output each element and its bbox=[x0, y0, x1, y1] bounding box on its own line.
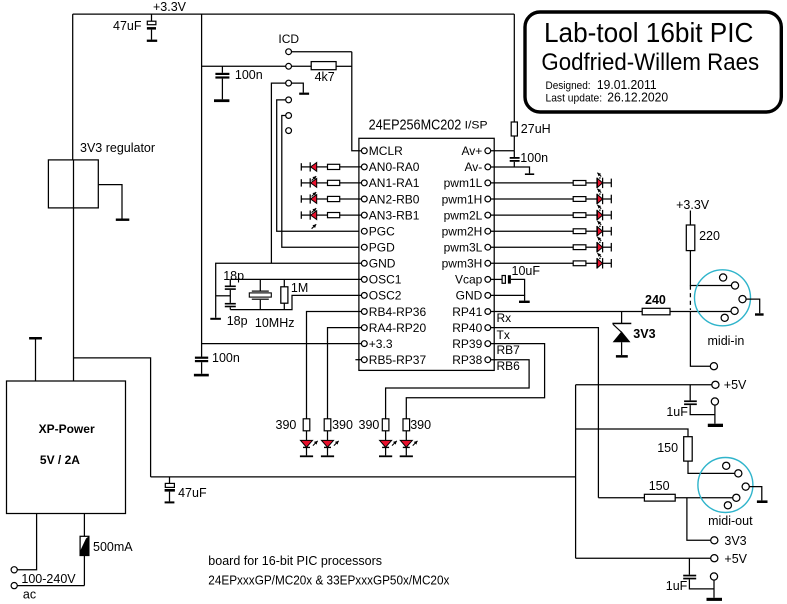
connector midi-out DIN bbox=[698, 458, 753, 529]
wire ICD gnd to GND pin bbox=[271, 83, 285, 263]
note board description text bbox=[208, 554, 450, 587]
svg-text:Rx: Rx bbox=[497, 311, 512, 325]
svg-text:18p: 18p bbox=[227, 314, 248, 328]
chip right pin circles and labels bbox=[442, 144, 491, 367]
svg-text:pwm3H: pwm3H bbox=[442, 257, 483, 271]
capacitor 18p C6 bottom bbox=[225, 290, 248, 328]
capacitor 1uF C9 bbox=[666, 558, 714, 593]
svg-text:Tx: Tx bbox=[497, 328, 510, 342]
capacitor 100n C7 bbox=[510, 151, 548, 167]
wire +3.3 pin to rail bbox=[202, 343, 362, 345]
svg-text:AN2-RB0: AN2-RB0 bbox=[369, 192, 420, 206]
svg-text:390: 390 bbox=[276, 418, 297, 432]
connector midi-in DIN bbox=[695, 270, 751, 348]
svg-text:pwm1H: pwm1H bbox=[442, 192, 483, 206]
terminal AC input live bbox=[11, 514, 36, 573]
wire RA4-RP20 down bbox=[328, 328, 362, 419]
svg-text:midi-out: midi-out bbox=[708, 514, 753, 528]
wire MCLR bbox=[359, 150, 362, 152]
wire caps midpoint to gnd bbox=[216, 295, 231, 297]
wire OSC1 bbox=[230, 278, 361, 280]
svg-text:OSC2: OSC2 bbox=[369, 289, 402, 303]
LED D5 row pwm1L bbox=[491, 173, 612, 188]
wire GND right pin to ground bbox=[491, 295, 530, 303]
svg-text:Godfried-Willem Raes: Godfried-Willem Raes bbox=[541, 49, 759, 76]
LED D4 row AN3 bbox=[301, 211, 361, 229]
terminal 3V3 midi-out bbox=[687, 498, 747, 548]
svg-text:24EP256MC202: 24EP256MC202 bbox=[369, 117, 462, 133]
wire Av- to ground bbox=[491, 167, 535, 175]
svg-text:pwm1L: pwm1L bbox=[444, 176, 483, 190]
capacitor 10uF Vcap bbox=[491, 264, 541, 295]
svg-text:10uF: 10uF bbox=[512, 264, 541, 278]
svg-text:AN0-RA0: AN0-RA0 bbox=[369, 160, 420, 174]
svg-text:Av+: Av+ bbox=[462, 144, 483, 158]
node +3.3V label bbox=[153, 0, 187, 14]
svg-text:RP39: RP39 bbox=[452, 337, 482, 351]
svg-text:4k7: 4k7 bbox=[315, 70, 335, 84]
resistor 240 bbox=[642, 293, 731, 315]
svg-text:220: 220 bbox=[699, 229, 720, 243]
capacitor 100n C4 bbox=[214, 66, 263, 102]
resistor 390 R4 bbox=[400, 419, 418, 457]
wire RP40 Tx down bbox=[491, 328, 599, 498]
svg-text:24EPxxxGP/MC20x & 33EPxxxGP50x: 24EPxxxGP/MC20x & 33EPxxxGP50x/MC20x bbox=[208, 573, 450, 587]
connector ICD pin 1 bbox=[286, 49, 352, 55]
inductor 27uH L1 bbox=[511, 14, 550, 151]
svg-text:AN3-RB1: AN3-RB1 bbox=[369, 208, 420, 222]
node RB6 label bbox=[497, 359, 521, 373]
svg-text:RP38: RP38 bbox=[452, 353, 482, 367]
svg-text:OSC1: OSC1 bbox=[369, 273, 402, 287]
svg-text:100n: 100n bbox=[212, 351, 240, 365]
node Rx label bbox=[497, 311, 512, 325]
svg-text:RB6: RB6 bbox=[497, 359, 521, 373]
svg-text:RP41: RP41 bbox=[452, 305, 482, 319]
svg-text:100n: 100n bbox=[235, 68, 263, 82]
resistor 390 R3 bbox=[379, 419, 397, 457]
resistor 150 R5 vertical bbox=[576, 429, 735, 473]
svg-text:5V / 2A: 5V / 2A bbox=[40, 453, 80, 467]
wire RP41 Rx to 240 bbox=[491, 311, 643, 313]
capacitor 18p C5 top bbox=[223, 269, 244, 290]
svg-text:RP40: RP40 bbox=[452, 321, 482, 335]
ground regulator tab bbox=[98, 185, 129, 221]
node 390 labels bbox=[276, 418, 432, 432]
ground midi-out shield bbox=[749, 487, 767, 503]
svg-text:board for 16-bit PIC processor: board for 16-bit PIC processors bbox=[208, 554, 382, 568]
svg-text:PGD: PGD bbox=[369, 241, 395, 255]
crystal X1 10MHz bbox=[249, 279, 294, 330]
svg-text:240: 240 bbox=[645, 293, 666, 307]
svg-text:Vcap: Vcap bbox=[455, 273, 483, 287]
svg-text:Lab-tool 16bit PIC: Lab-tool 16bit PIC bbox=[544, 17, 753, 48]
capacitor 1uF C8 bbox=[666, 385, 715, 419]
LED D1 row AN0 bbox=[301, 162, 361, 180]
svg-text:RA4-RP20: RA4-RP20 bbox=[369, 321, 427, 335]
LED D10 row pwm3H bbox=[491, 253, 612, 268]
connector ICD pin 6 bbox=[286, 128, 292, 134]
terminal ground midi-out cap bbox=[707, 573, 723, 601]
svg-text:RB4-RP36: RB4-RP36 bbox=[369, 305, 427, 319]
svg-text:27uH: 27uH bbox=[521, 122, 551, 136]
wire +3.3V top rail bbox=[73, 13, 515, 15]
LED D3 row AN2 bbox=[301, 194, 361, 212]
wire +5V branch left bbox=[74, 358, 151, 477]
wire OSC2 bbox=[230, 295, 361, 309]
svg-text:18p: 18p bbox=[223, 269, 244, 283]
wire 220 to midi-in pin bbox=[690, 251, 731, 367]
title block box bbox=[525, 12, 781, 112]
resistor 1M bbox=[281, 279, 308, 309]
ground midi-in shield bbox=[746, 299, 764, 316]
terminal midi-in cable shield bbox=[710, 363, 717, 370]
svg-text:47uF: 47uF bbox=[113, 19, 142, 33]
node 100-240V ac label bbox=[21, 572, 76, 602]
LED D9 row pwm3L bbox=[491, 237, 612, 252]
svg-text:+5V: +5V bbox=[724, 378, 747, 392]
LED D6 row pwm1H bbox=[491, 189, 612, 204]
capacitor 47uF C1 bbox=[113, 14, 157, 42]
chip left pin circles and labels bbox=[361, 144, 426, 367]
terminal ground midi-in cap bbox=[708, 398, 723, 427]
wire RP39 RB7 loop bbox=[406, 344, 544, 419]
svg-text:PGC: PGC bbox=[369, 225, 395, 239]
wire Av+ to 27uH bbox=[491, 150, 515, 152]
svg-text:3V3 regulator: 3V3 regulator bbox=[80, 141, 155, 155]
resistor 150 R6 horizontal bbox=[598, 479, 732, 501]
LED D7 row pwm2L bbox=[491, 205, 612, 220]
op-amp U1 PIC 24EP256MC202 chip body bbox=[359, 117, 494, 370]
svg-text:+3.3V: +3.3V bbox=[676, 198, 710, 212]
svg-text:47uF: 47uF bbox=[178, 486, 207, 500]
resistor 220 bbox=[686, 211, 720, 251]
capacitor 100n C2 on rail bbox=[194, 351, 240, 376]
svg-text:10MHz: 10MHz bbox=[255, 316, 295, 330]
svg-text:Designed:: Designed: bbox=[546, 80, 591, 92]
svg-text:pwm2H: pwm2H bbox=[442, 225, 483, 239]
svg-text:1M: 1M bbox=[291, 281, 308, 295]
svg-text:100n: 100n bbox=[520, 151, 548, 165]
svg-text:390: 390 bbox=[332, 418, 353, 432]
node Tx label bbox=[497, 328, 510, 342]
svg-text:1uF: 1uF bbox=[666, 405, 688, 419]
svg-text:RB7: RB7 bbox=[497, 343, 521, 357]
connector ICD pin 5 bbox=[282, 113, 362, 248]
svg-text:MCLR: MCLR bbox=[369, 144, 403, 158]
svg-text:ICD: ICD bbox=[278, 32, 299, 46]
svg-text:pwm3L: pwm3L bbox=[444, 241, 483, 255]
terminal +5V midi-out bbox=[576, 552, 748, 566]
svg-text:1uF: 1uF bbox=[666, 579, 688, 593]
node ICD label bbox=[278, 32, 299, 46]
svg-text:390: 390 bbox=[359, 418, 380, 432]
wire +5V vertical net bbox=[575, 385, 577, 558]
svg-text:GND: GND bbox=[369, 257, 396, 271]
svg-text:390: 390 bbox=[410, 418, 431, 432]
svg-text:Last update:: Last update: bbox=[546, 92, 603, 104]
svg-text:AN1-RA1: AN1-RA1 bbox=[369, 176, 420, 190]
ground ICD pin3 bbox=[299, 93, 309, 95]
wire RB5-RP37 stub bbox=[355, 359, 361, 361]
svg-text:150: 150 bbox=[657, 441, 678, 455]
terminal +5V midi-in bbox=[576, 378, 747, 392]
LED D2 row AN1 bbox=[301, 178, 361, 196]
svg-text:+3.3: +3.3 bbox=[369, 337, 393, 351]
regulator U2 3V3 regulator bbox=[48, 141, 155, 208]
wire RB4-RP36 down bbox=[307, 312, 362, 419]
terminal AC input neutral bbox=[11, 583, 84, 589]
node +3.3V label right bbox=[676, 198, 710, 212]
svg-text:midi-in: midi-in bbox=[708, 334, 745, 348]
svg-text:500mA: 500mA bbox=[93, 540, 133, 554]
svg-text:+5V: +5V bbox=[724, 552, 747, 566]
power XP-Power PSU box bbox=[7, 381, 126, 514]
svg-text:RB5-RP37: RB5-RP37 bbox=[369, 353, 427, 367]
resistor 390 R1 bbox=[300, 419, 318, 457]
wire GND pin to ground bbox=[210, 263, 361, 320]
wire RP38 RB6 loop bbox=[386, 360, 529, 419]
svg-text:150: 150 bbox=[649, 479, 670, 493]
wire +3.3 rail vertical bbox=[201, 14, 203, 357]
terminal T-bar above PSU bbox=[29, 337, 42, 381]
wire MCLR pull-up vertical bbox=[352, 52, 362, 151]
node RB7 label bbox=[497, 343, 521, 357]
svg-text:3V3: 3V3 bbox=[724, 534, 746, 548]
wire left rail lower bbox=[73, 208, 75, 381]
wire +5V long horizontal bbox=[151, 476, 576, 478]
connector ICD pin 4 bbox=[277, 97, 362, 231]
diode zener 3V3 bbox=[612, 312, 655, 358]
resistor 390 R2 bbox=[321, 419, 339, 457]
svg-text:ac: ac bbox=[23, 588, 36, 602]
svg-text:I/SP: I/SP bbox=[465, 119, 488, 131]
svg-text:+3.3V: +3.3V bbox=[153, 0, 187, 14]
wire left rail upper bbox=[72, 14, 74, 160]
svg-text:GND: GND bbox=[456, 289, 483, 303]
svg-text:3V3: 3V3 bbox=[633, 327, 655, 341]
capacitor 47uF C3 bbox=[165, 477, 207, 504]
connector ICD pin 2 bbox=[202, 63, 312, 69]
svg-text:pwm2L: pwm2L bbox=[444, 208, 483, 222]
fuse F1 500mA bbox=[80, 514, 133, 586]
svg-text:100-240V: 100-240V bbox=[21, 572, 76, 586]
connector ICD pin 3 bbox=[286, 80, 304, 92]
svg-text:26.12.2020: 26.12.2020 bbox=[607, 89, 668, 104]
resistor 4k7 bbox=[311, 62, 352, 84]
LED D8 row pwm2H bbox=[491, 221, 612, 236]
svg-text:Av-: Av- bbox=[465, 160, 483, 174]
svg-text:XP-Power: XP-Power bbox=[39, 422, 95, 436]
